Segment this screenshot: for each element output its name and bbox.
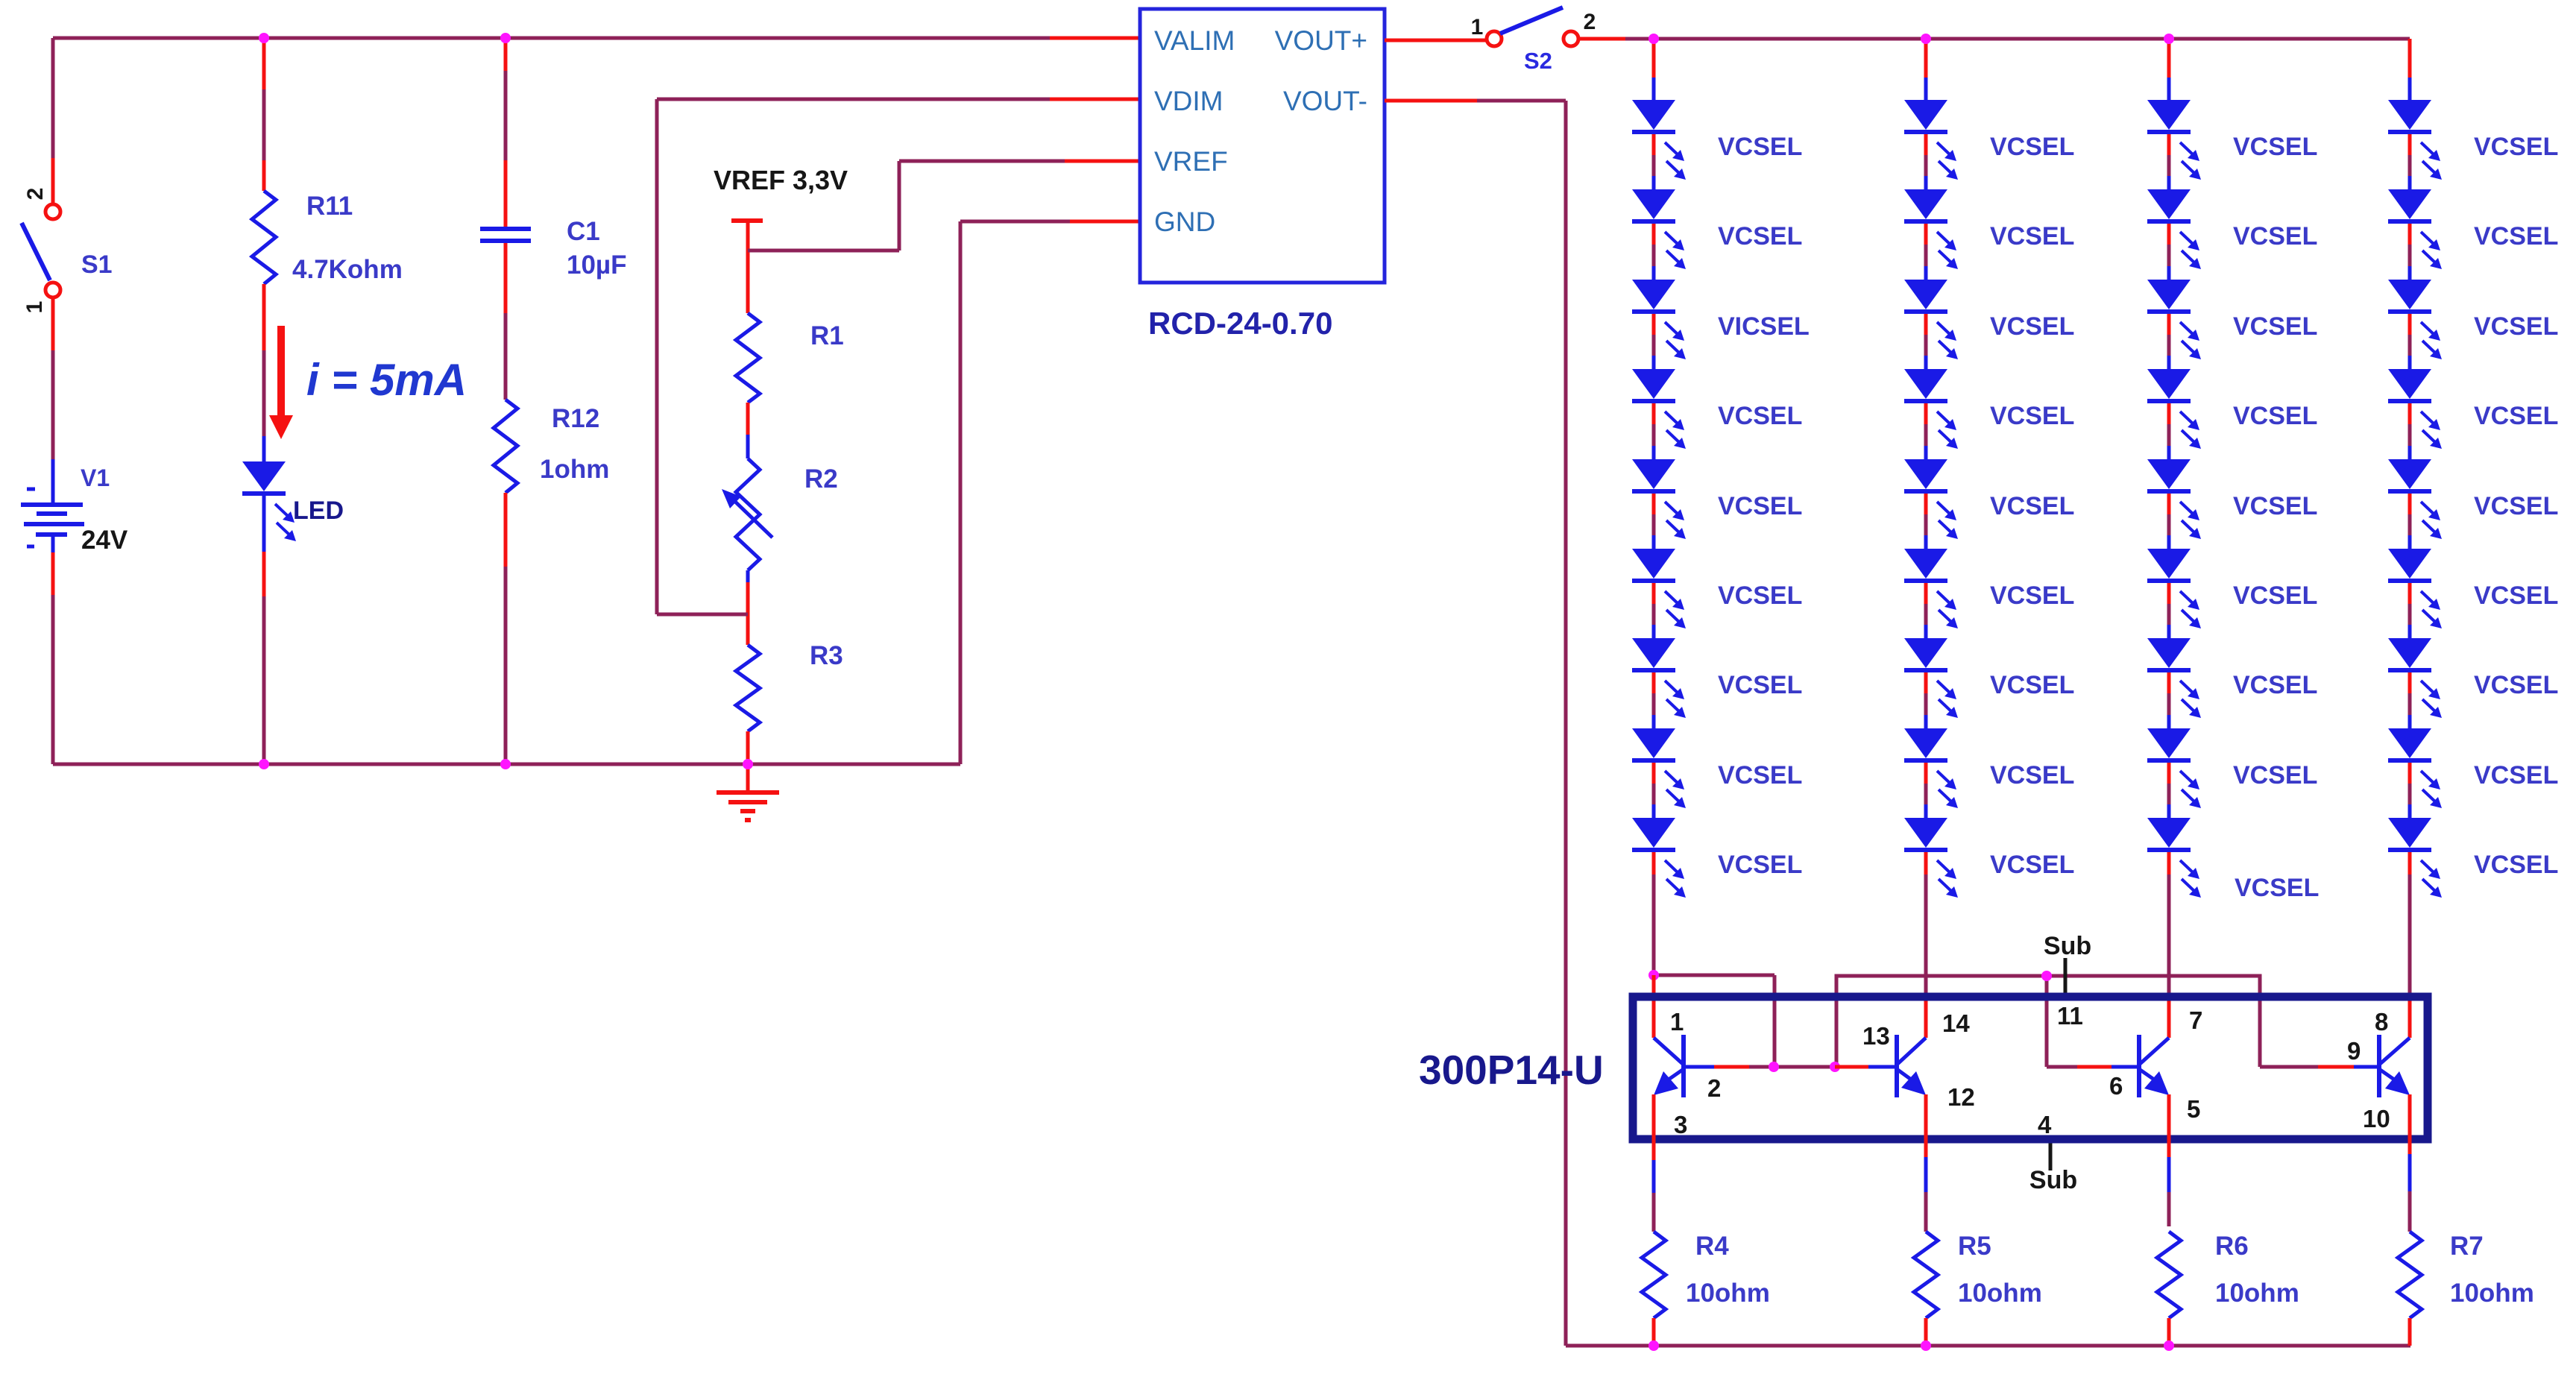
svg-text:12: 12 <box>1947 1083 1975 1111</box>
VCSEL label col2 row9 <box>1990 851 2074 879</box>
diode VCSEL col3 row8 <box>2147 728 2201 808</box>
svg-text:VCSEL: VCSEL <box>2233 671 2317 699</box>
svg-text:VCSEL: VCSEL <box>2233 761 2317 790</box>
svg-text:7: 7 <box>2189 1006 2202 1034</box>
wire top rail right section <box>1578 37 2410 41</box>
Q1 pin 2 <box>1707 1074 1721 1102</box>
diode VCSEL col4 row4 <box>2388 369 2442 449</box>
Q3 pin 11 label <box>2057 1002 2083 1030</box>
junction bottom rail at R3 <box>743 759 753 769</box>
U1 pin VREF <box>1154 146 1228 177</box>
diode VCSEL col1 row3 <box>1632 280 1686 359</box>
diode VCSEL col2 row6 <box>1904 549 1958 628</box>
LED label <box>293 497 344 525</box>
wire column 4 to transistor <box>2408 852 2412 1038</box>
U2 label 300P14-U <box>1419 1047 1604 1093</box>
VCSEL label col3 row5 <box>2233 492 2317 520</box>
R12 value <box>540 455 609 484</box>
Q4 pin 10 <box>2363 1105 2390 1132</box>
VREF 3.3V terminal <box>731 218 763 250</box>
U1 pin GND <box>1154 207 1215 237</box>
diode VCSEL col3 row1 <box>2147 100 2201 180</box>
diode VCSEL col4 row6 <box>2388 549 2442 628</box>
svg-text:VICSEL: VICSEL <box>1718 312 1810 341</box>
svg-text:S2: S2 <box>1524 48 1552 74</box>
wire VCSEL column 1 <box>1652 39 1656 818</box>
wire VCSEL column 2 <box>1924 39 1928 818</box>
R3 label <box>810 641 843 670</box>
VCSEL label col2 row7 <box>1990 671 2074 699</box>
svg-text:R7: R7 <box>2450 1232 2484 1261</box>
VCSEL label col4 row4 <box>2474 402 2558 430</box>
Q4 pin 8 <box>2375 1008 2388 1036</box>
VCSEL label col3 row4 <box>2233 402 2317 430</box>
svg-text:10: 10 <box>2363 1105 2390 1132</box>
wire rail B to Q3 base <box>2045 976 2049 1067</box>
wire top rail left section <box>53 37 1140 40</box>
svg-text:VCSEL: VCSEL <box>2233 582 2317 610</box>
capacitor C1 <box>480 229 531 241</box>
transistor Q3 <box>2139 1035 2169 1097</box>
wire R12 to bottom rail <box>504 493 508 764</box>
svg-text:1: 1 <box>1670 1008 1684 1036</box>
R1 label <box>810 321 844 350</box>
R6 label <box>2215 1232 2249 1261</box>
VREF source label <box>714 165 848 195</box>
switch S2 <box>1487 7 1578 46</box>
svg-text:VCSEL: VCSEL <box>2474 671 2558 699</box>
resistor R3 <box>736 645 760 731</box>
svg-text:VCSEL: VCSEL <box>1718 492 1802 520</box>
wire VREF node to R1 <box>746 250 750 313</box>
R6 value <box>2215 1279 2299 1308</box>
svg-text:VCSEL: VCSEL <box>1990 671 2074 699</box>
diode VCSEL col2 row8 <box>1904 728 1958 808</box>
R4 label <box>1695 1232 1729 1261</box>
VCSEL label col4 row1 <box>2474 133 2558 161</box>
diode LED <box>242 461 296 541</box>
svg-text:R4: R4 <box>1695 1232 1729 1261</box>
svg-text:VCSEL: VCSEL <box>2233 222 2317 250</box>
svg-text:1ohm: 1ohm <box>540 455 609 484</box>
junction bottom rail at LED <box>259 759 269 769</box>
wire Q1 emitter to R4 <box>1652 1094 1656 1232</box>
diode VCSEL col1 row6 <box>1632 549 1686 628</box>
U2 pin 4 lead <box>2049 1143 2053 1170</box>
wire Q2 emitter to R5 <box>1924 1094 1928 1232</box>
svg-text:VCSEL: VCSEL <box>1718 402 1802 430</box>
VCSEL label col1 row5 <box>1718 492 1802 520</box>
VCSEL label col2 row3 <box>1990 312 2074 341</box>
diode VCSEL col3 row4 <box>2147 369 2201 449</box>
svg-text:VCSEL: VCSEL <box>2474 582 2558 610</box>
wire VOUT+ to S2 <box>1385 39 1486 42</box>
junction top rail col1 <box>1648 34 1659 44</box>
resistor R7 <box>2398 1232 2422 1318</box>
S2 label <box>1524 48 1552 74</box>
svg-text:VREF 3,3V: VREF 3,3V <box>714 165 848 195</box>
svg-text:VCSEL: VCSEL <box>1718 671 1802 699</box>
svg-text:VCSEL: VCSEL <box>1990 312 2074 341</box>
svg-text:11: 11 <box>2057 1002 2083 1030</box>
R7 label <box>2450 1232 2484 1261</box>
diode VCSEL col3 row2 <box>2147 189 2201 269</box>
R5 label <box>1958 1232 1991 1261</box>
svg-text:S1: S1 <box>81 250 113 279</box>
diode VCSEL col4 row1 <box>2388 100 2442 180</box>
diode VCSEL col4 row7 <box>2388 638 2442 718</box>
diode VCSEL col3 row9 <box>2147 818 2201 898</box>
resistor R5 <box>1914 1232 1938 1318</box>
current label i = 5mA <box>306 355 467 405</box>
S2 pin label 2 <box>1584 10 1596 34</box>
svg-text:13: 13 <box>1862 1022 1890 1050</box>
svg-text:4: 4 <box>2038 1111 2052 1138</box>
wire Q2 base <box>1835 1065 1897 1069</box>
diode VCSEL col4 row5 <box>2388 459 2442 539</box>
Q1 pin 1 <box>1670 1008 1684 1036</box>
resistor R11 <box>252 191 276 284</box>
Q4 pin 9 <box>2347 1037 2361 1065</box>
diode VCSEL col3 row7 <box>2147 638 2201 718</box>
VCSEL label col1 row3 <box>1718 312 1810 341</box>
S2 pin label 1 <box>1471 15 1484 40</box>
svg-text:VCSEL: VCSEL <box>2233 133 2317 161</box>
svg-text:VCSEL: VCSEL <box>1990 851 2074 879</box>
wire VOUT- return <box>1385 101 1566 1346</box>
svg-text:1: 1 <box>1471 15 1484 40</box>
potentiometer R2 <box>722 458 772 570</box>
VCSEL label col1 row9 <box>1718 851 1802 879</box>
svg-text:VCSEL: VCSEL <box>1718 133 1802 161</box>
U1 label RCD-24-0.70 <box>1148 306 1332 341</box>
R5 value <box>1958 1279 2042 1308</box>
VCSEL label col3 row2 <box>2233 222 2317 250</box>
svg-text:R11: R11 <box>306 192 353 221</box>
svg-text:10µF: 10µF <box>567 250 626 280</box>
resistor R6 <box>2157 1232 2181 1318</box>
R2 label <box>804 464 838 494</box>
diode VCSEL col1 row1 <box>1632 100 1686 180</box>
battery label V1 <box>81 464 110 491</box>
junction top rail col2 <box>1921 34 1931 44</box>
S1 pin label 1 <box>22 301 47 314</box>
svg-text:2: 2 <box>23 188 48 201</box>
VCSEL label col2 row6 <box>1990 582 2074 610</box>
junction column1 mirror <box>1648 970 1659 980</box>
VCSEL label col4 row9 <box>2474 851 2558 879</box>
svg-text:VCSEL: VCSEL <box>2233 402 2317 430</box>
wire column 1 collector stub <box>1652 975 1656 1038</box>
svg-text:VCSEL: VCSEL <box>2235 874 2319 902</box>
svg-text:9: 9 <box>2347 1037 2361 1065</box>
Q2 pin 14 <box>1942 1009 1970 1037</box>
VCSEL label col2 row2 <box>1990 222 2074 250</box>
diode VCSEL col4 row9 <box>2388 818 2442 898</box>
VCSEL label col4 row7 <box>2474 671 2558 699</box>
svg-text:VCSEL: VCSEL <box>2474 133 2558 161</box>
svg-text:4.7Kohm: 4.7Kohm <box>292 255 403 284</box>
wire base rail B <box>1836 976 2260 1067</box>
junction bottom rail R5 <box>1921 1340 1931 1351</box>
resistor R1 <box>736 313 760 403</box>
diode VCSEL col1 row8 <box>1632 728 1686 808</box>
wire rail to C1 <box>504 38 508 227</box>
VCSEL label col3 row9 <box>2235 874 2319 902</box>
svg-text:R3: R3 <box>810 641 843 670</box>
transistor Q1 <box>1654 1035 1684 1097</box>
svg-text:5: 5 <box>2187 1095 2200 1123</box>
svg-text:R2: R2 <box>804 464 838 494</box>
transistor Q2 <box>1897 1035 1926 1097</box>
diode VCSEL col1 row2 <box>1632 189 1686 269</box>
C1 value <box>567 250 626 280</box>
svg-text:2: 2 <box>1707 1074 1721 1102</box>
svg-text:VCSEL: VCSEL <box>1718 582 1802 610</box>
VCSEL label col1 row8 <box>1718 761 1802 790</box>
VCSEL label col1 row4 <box>1718 402 1802 430</box>
svg-text:3: 3 <box>1674 1111 1687 1138</box>
diode VCSEL col2 row7 <box>1904 638 1958 718</box>
resistor R12 <box>494 400 517 493</box>
svg-text:VCSEL: VCSEL <box>2474 222 2558 250</box>
svg-text:Sub: Sub <box>2029 1166 2077 1194</box>
wire VCSEL column 4 <box>2408 39 2412 818</box>
wire R1 to R2 <box>746 403 750 458</box>
diode VCSEL col2 row4 <box>1904 369 1958 449</box>
VCSEL label col3 row8 <box>2233 761 2317 790</box>
wire R2 to node <box>746 570 750 645</box>
wire Q4 emitter to R7 <box>2408 1094 2412 1232</box>
junction bottom rail at R12 <box>500 759 511 769</box>
wire mirror rail A <box>1654 975 1774 1067</box>
diode VCSEL col1 row4 <box>1632 369 1686 449</box>
svg-text:2: 2 <box>1584 10 1596 34</box>
VCSEL label col2 row4 <box>1990 402 2074 430</box>
svg-text:6: 6 <box>2109 1072 2123 1100</box>
svg-text:VCSEL: VCSEL <box>1990 582 2074 610</box>
Q2 pin 13 <box>1862 1022 1890 1050</box>
VCSEL label col1 row7 <box>1718 671 1802 699</box>
U1 pin VALIM <box>1154 25 1235 56</box>
VCSEL label col4 row2 <box>2474 222 2558 250</box>
Sub net top label <box>2044 932 2091 960</box>
svg-text:8: 8 <box>2375 1008 2388 1036</box>
U1 pin VDIM <box>1154 86 1224 116</box>
wire rail to R11 <box>262 38 266 191</box>
wire Q3 emitter to R6 <box>2167 1094 2171 1226</box>
junction bottom rail R6 <box>2164 1340 2174 1351</box>
svg-text:VCSEL: VCSEL <box>1990 761 2074 790</box>
svg-text:VCSEL: VCSEL <box>1718 851 1802 879</box>
diode VCSEL col1 row7 <box>1632 638 1686 718</box>
VCSEL label col1 row1 <box>1718 133 1802 161</box>
wire Q4 base <box>2260 1065 2379 1069</box>
svg-text:VCSEL: VCSEL <box>2233 492 2317 520</box>
VCSEL label col1 row6 <box>1718 582 1802 610</box>
diode VCSEL col4 row8 <box>2388 728 2442 808</box>
VCSEL label col3 row7 <box>2233 671 2317 699</box>
VCSEL label col2 row1 <box>1990 133 2074 161</box>
VCSEL label col1 row2 <box>1718 222 1802 250</box>
VCSEL label col3 row3 <box>2233 312 2317 341</box>
svg-text:i = 5mA: i = 5mA <box>306 355 467 405</box>
wire R5 to bottom rail <box>1924 1318 1928 1346</box>
transistor Q4 <box>2379 1035 2410 1097</box>
junction bottom rail R4 <box>1648 1340 1659 1351</box>
svg-text:VCSEL: VCSEL <box>1990 492 2074 520</box>
Q1 pin 3 <box>1674 1111 1687 1138</box>
wire S1 to battery <box>51 297 55 459</box>
wire VCSEL column 3 <box>2167 39 2171 818</box>
R11 label <box>306 192 353 221</box>
switch S1 <box>22 204 60 297</box>
VCSEL label col3 row6 <box>2233 582 2317 610</box>
wire column 2 to transistor <box>1924 852 1928 1038</box>
battery value 24V <box>81 526 128 555</box>
svg-text:VALIM: VALIM <box>1154 25 1235 56</box>
svg-text:R5: R5 <box>1958 1232 1991 1261</box>
svg-text:1: 1 <box>22 301 47 314</box>
R11 value <box>292 255 403 284</box>
svg-text:VDIM: VDIM <box>1154 86 1224 116</box>
wire left vertical <box>51 38 55 204</box>
svg-text:10ohm: 10ohm <box>2450 1279 2534 1308</box>
junction Q1 base rail A <box>1769 1062 1779 1072</box>
svg-text:10ohm: 10ohm <box>1958 1279 2042 1308</box>
R4 value <box>1686 1279 1770 1308</box>
svg-text:VCSEL: VCSEL <box>1990 133 2074 161</box>
VCSEL label col4 row8 <box>2474 761 2558 790</box>
svg-text:VOUT+: VOUT+ <box>1275 25 1367 56</box>
junction rail B Sub <box>2041 971 2052 981</box>
C1 label <box>567 217 600 246</box>
diode VCSEL col1 row5 <box>1632 459 1686 539</box>
svg-text:24V: 24V <box>81 526 128 555</box>
junction top rail col3 <box>2164 34 2174 44</box>
svg-text:VCSEL: VCSEL <box>2474 402 2558 430</box>
svg-text:R12: R12 <box>552 404 599 433</box>
ground <box>717 764 779 820</box>
junction Q1 base rail B <box>1830 1062 1840 1072</box>
wire LED to bottom rail <box>262 496 266 764</box>
wire Q1 base <box>1684 1065 1835 1069</box>
Q2 pin 12 <box>1947 1083 1975 1111</box>
VCSEL label col2 row8 <box>1990 761 2074 790</box>
svg-text:VCSEL: VCSEL <box>2474 312 2558 341</box>
svg-text:300P14-U: 300P14-U <box>1419 1047 1604 1093</box>
svg-text:14: 14 <box>1942 1009 1970 1037</box>
svg-text:RCD-24-0.70: RCD-24-0.70 <box>1148 306 1332 341</box>
svg-text:10ohm: 10ohm <box>2215 1279 2299 1308</box>
wire column 3 to transistor <box>2167 852 2171 1038</box>
diode VCSEL col4 row2 <box>2388 189 2442 269</box>
wire column 1 to mirror node <box>1652 852 1656 975</box>
VCSEL label col4 row6 <box>2474 582 2558 610</box>
diode VCSEL col2 row1 <box>1904 100 1958 180</box>
svg-text:VCSEL: VCSEL <box>2474 761 2558 790</box>
VCSEL label col4 row5 <box>2474 492 2558 520</box>
Sub net bottom label <box>2029 1166 2077 1194</box>
Q3 pin 5 <box>2187 1095 2200 1123</box>
diode VCSEL col3 row3 <box>2147 280 2201 359</box>
svg-text:VCSEL: VCSEL <box>2474 851 2558 879</box>
Q3 pin 7 <box>2189 1006 2202 1034</box>
junction top rail at C1 <box>500 33 511 43</box>
converter U1 RCD-24-0.70 box <box>1140 9 1385 283</box>
S1 pin label 2 <box>23 188 48 201</box>
wire Q3 base <box>2047 1065 2139 1069</box>
wire bottom rail left section <box>53 763 960 766</box>
svg-text:C1: C1 <box>567 217 600 246</box>
resistor R4 <box>1642 1232 1666 1318</box>
svg-text:VCSEL: VCSEL <box>1990 222 2074 250</box>
svg-text:VREF: VREF <box>1154 146 1228 177</box>
diode VCSEL col2 row3 <box>1904 280 1958 359</box>
diode VCSEL col1 row9 <box>1632 818 1686 898</box>
wire GND net <box>960 221 1140 764</box>
diode VCSEL col2 row9 <box>1904 818 1958 898</box>
diode VCSEL col2 row5 <box>1904 459 1958 539</box>
svg-text:VCSEL: VCSEL <box>1718 222 1802 250</box>
svg-text:10ohm: 10ohm <box>1686 1279 1770 1308</box>
diode VCSEL col3 row5 <box>2147 459 2201 539</box>
current arrow i <box>269 326 293 439</box>
battery V1 <box>21 459 84 552</box>
wire C1 to R12 <box>504 243 508 400</box>
wire R3 to bottom rail <box>746 731 750 764</box>
svg-text:VCSEL: VCSEL <box>1990 402 2074 430</box>
diode VCSEL col2 row2 <box>1904 189 1958 269</box>
wire VDIM net <box>657 99 1140 614</box>
wire battery to bottom rail <box>51 552 55 764</box>
VCSEL label col3 row1 <box>2233 133 2317 161</box>
svg-text:V1: V1 <box>81 464 110 491</box>
svg-text:Sub: Sub <box>2044 932 2091 960</box>
svg-text:R6: R6 <box>2215 1232 2249 1261</box>
U2 pin 11 lead <box>2064 958 2068 998</box>
svg-text:VCSEL: VCSEL <box>2474 492 2558 520</box>
svg-text:LED: LED <box>293 497 344 525</box>
wire bottom rail right section <box>1566 1344 2410 1348</box>
U1 pin VOUT+ <box>1275 25 1367 56</box>
Q3 pin 6 <box>2109 1072 2123 1100</box>
wire R6 to bottom rail <box>2167 1318 2171 1346</box>
svg-text:R1: R1 <box>810 321 844 350</box>
svg-text:VCSEL: VCSEL <box>1718 761 1802 790</box>
junction top rail at R11 <box>259 33 269 43</box>
R12 label <box>552 404 599 433</box>
transistor array U2 300P14-U box <box>1633 997 2428 1139</box>
svg-text:VCSEL: VCSEL <box>2233 312 2317 341</box>
Q3 pin 4 label <box>2038 1111 2052 1138</box>
svg-text:VOUT-: VOUT- <box>1283 86 1367 116</box>
diode VCSEL col3 row6 <box>2147 549 2201 628</box>
diode VCSEL col4 row3 <box>2388 280 2442 359</box>
svg-text:GND: GND <box>1154 207 1215 237</box>
VCSEL label col4 row3 <box>2474 312 2558 341</box>
VCSEL label col2 row5 <box>1990 492 2074 520</box>
wire R7 to bottom rail <box>2408 1318 2412 1346</box>
S1 label <box>81 250 113 279</box>
wire R11 to LED <box>262 284 266 461</box>
wire VREF net <box>748 161 1140 250</box>
wire R4 to bottom rail <box>1652 1318 1656 1346</box>
U1 pin VOUT- <box>1283 86 1367 116</box>
R7 value <box>2450 1279 2534 1308</box>
